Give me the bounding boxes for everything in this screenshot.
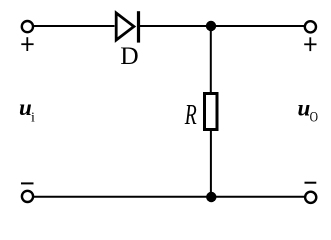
diode D xyxy=(116,11,140,42)
polarity - bottom-right xyxy=(305,182,317,184)
node top junction xyxy=(206,21,216,31)
wire vertical lower xyxy=(210,130,212,197)
resistor R xyxy=(205,94,218,130)
terminal TR xyxy=(305,21,316,32)
svg-text:i: i xyxy=(31,110,35,125)
wire top-right segment xyxy=(139,25,304,27)
node bottom junction xyxy=(206,192,216,202)
wire vertical upper xyxy=(210,26,212,93)
terminal BL xyxy=(22,191,33,202)
terminal BR xyxy=(305,192,316,203)
label u_i xyxy=(19,95,35,125)
polarity + top-right xyxy=(304,37,316,51)
svg-text:D: D xyxy=(120,41,138,70)
svg-text:O: O xyxy=(310,110,319,126)
wire bottom xyxy=(34,196,305,198)
svg-text:R: R xyxy=(184,100,197,131)
polarity - bottom-left xyxy=(21,182,34,184)
terminal TL xyxy=(22,21,33,32)
svg-text:u: u xyxy=(298,95,311,120)
label u_O xyxy=(298,95,319,125)
polarity + top-left xyxy=(21,37,33,51)
wire top-left segment xyxy=(34,25,115,27)
